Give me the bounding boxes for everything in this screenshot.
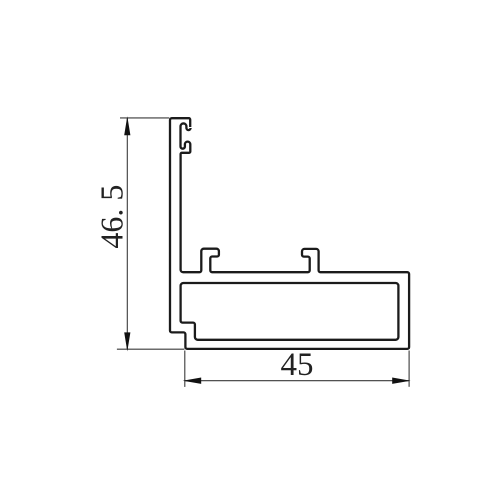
dimension extension line top bbox=[120, 117, 169, 119]
arrow up bbox=[124, 116, 130, 135]
arrow left bbox=[183, 378, 202, 384]
vertical dimension line bbox=[126, 119, 128, 350]
h-dim extension right bbox=[408, 351, 410, 387]
inner cavity bbox=[181, 283, 399, 340]
svg-text:46. 5: 46. 5 bbox=[93, 185, 129, 249]
profile outer contour bbox=[170, 118, 409, 349]
h-dim extension left bbox=[184, 351, 186, 387]
svg-text:45: 45 bbox=[281, 347, 314, 383]
arrow down bbox=[124, 332, 130, 351]
horizontal dimension line bbox=[185, 380, 409, 382]
arrow right bbox=[392, 378, 410, 384]
dimension extension line bottom left bbox=[117, 348, 184, 350]
